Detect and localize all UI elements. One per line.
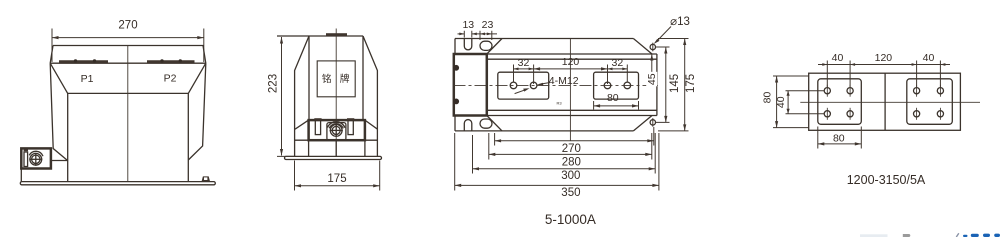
front view: cap bottom edge xyxy=(50,62,206,64)
busbar view: top dim extension lines xyxy=(827,61,940,88)
busbar view: right pad plate xyxy=(907,79,953,125)
svg-text:175: 175 xyxy=(685,74,697,93)
front view: outer right slant side xyxy=(188,63,206,160)
busbar view: dim line 40 vertical xyxy=(787,91,790,114)
front view: top cap outline xyxy=(50,46,206,64)
side view: 175 extension lines xyxy=(295,161,380,191)
svg-text:铭牌: 铭牌 xyxy=(322,72,358,85)
top view: dim line 280 xyxy=(489,153,652,156)
side view: left stud cap xyxy=(314,118,321,120)
side view: nameplate rectangle xyxy=(317,61,355,97)
svg-text:40: 40 xyxy=(923,52,935,64)
side view: dimension line 223 xyxy=(280,37,283,156)
top view: bottom U-slot xyxy=(464,120,472,131)
top view: dim line 300 xyxy=(473,167,656,170)
side view: terminal box outer (thick) xyxy=(309,120,365,140)
top view: band outer top line xyxy=(487,53,657,55)
front view: base plate xyxy=(20,182,215,185)
busbar view: 40 vertical ext lines xyxy=(786,91,825,114)
front view: terminal box bolt circles xyxy=(29,151,43,165)
front view: terminal box inner bar xyxy=(24,152,28,167)
top view: 175 ext lines xyxy=(658,39,689,131)
top view: outer bottom edge xyxy=(455,130,633,132)
side view: lower verticals xyxy=(309,140,365,156)
top view: dim 80 ext lines xyxy=(594,101,639,110)
svg-text:P1: P1 xyxy=(81,73,94,85)
top view: slash arrow near hole 2 xyxy=(515,88,530,93)
svg-text:120: 120 xyxy=(562,56,580,68)
top view: left edge below cap xyxy=(454,116,456,131)
top view: outer top edge xyxy=(455,38,633,40)
svg-text:32: 32 xyxy=(612,57,624,69)
busbar view: bar outline xyxy=(809,73,961,130)
top view: BL outer chamfer xyxy=(487,116,502,131)
front view: strip rivet ticks right xyxy=(160,59,182,62)
top view: M12 hole 4 xyxy=(624,82,631,89)
svg-text:300: 300 xyxy=(561,170,580,182)
front view: box left edge down to base xyxy=(20,169,22,182)
svg-text:5-1000A: 5-1000A xyxy=(545,212,596,227)
side view: left terminal stud xyxy=(315,120,320,135)
top view: band inner top line xyxy=(487,58,657,60)
top view: dim line 175 xyxy=(683,39,686,131)
top view: bottom dims extension lines xyxy=(455,127,659,191)
top view: label dia 13 with leader xyxy=(654,16,690,44)
front view: dimension 270 extension line right xyxy=(203,29,205,63)
top view: dim 13 extension lines xyxy=(464,31,472,38)
side view: right outer slant xyxy=(363,36,377,156)
side view: right wing diagonal xyxy=(365,120,378,129)
side view: right stud cap xyxy=(347,118,354,120)
front view: left terminal strip (thick) xyxy=(59,60,108,63)
top view: dim line 145 xyxy=(664,47,667,122)
top view: top U-slot xyxy=(464,39,472,50)
svg-text:120: 120 xyxy=(875,52,893,64)
svg-text:80: 80 xyxy=(607,92,619,104)
svg-text:1200-3150/5A: 1200-3150/5A xyxy=(847,173,926,187)
top view: left hole plate xyxy=(498,72,549,99)
busbar view: bolt holes right plate xyxy=(914,85,944,120)
front view: grounding bolt on base xyxy=(202,176,210,181)
watermark: light panel fragment xyxy=(860,234,888,237)
top view: dim line 80 xyxy=(594,104,639,107)
top view: dim 23 extension lines xyxy=(480,31,492,40)
top view: corner hole bottom right xyxy=(650,118,655,127)
top view: right hole plate xyxy=(594,72,639,99)
svg-text:350: 350 xyxy=(561,187,580,199)
top view: dim line 350 xyxy=(455,184,659,187)
busbar view: 80 bottom ext lines xyxy=(818,127,862,149)
svg-text:270: 270 xyxy=(118,20,137,32)
front view: secondary terminal box outer xyxy=(21,148,51,168)
side view: top lifting tab (thick) xyxy=(326,33,347,36)
front view: top-right chamfer diagonal xyxy=(188,63,206,93)
front view: right terminal strip (thick) xyxy=(147,60,195,63)
busbar view: 80 vertical ext lines xyxy=(773,76,809,128)
top view: dim line 120 xyxy=(534,67,608,70)
side view: left wing diagonal xyxy=(295,120,309,129)
top view: dim line 270 xyxy=(495,139,654,142)
front view: center vertical line xyxy=(127,46,129,182)
svg-text:145: 145 xyxy=(669,74,681,93)
top view: dim line 32 right xyxy=(608,68,628,71)
front view: dimension 270 extension line left xyxy=(51,29,53,63)
top view: band inner bottom line xyxy=(487,109,657,111)
busbar view: horizontal centerline xyxy=(800,101,980,103)
side view: inner left vertical xyxy=(308,36,310,120)
top view: dim line 45 xyxy=(646,54,657,86)
busbar view: bolt holes left plate xyxy=(824,85,853,120)
watermark: slash fragment xyxy=(956,233,959,237)
front view: strip rivet ticks left xyxy=(74,59,96,62)
side view: center vertical line xyxy=(335,29,337,157)
svg-text:⌀13: ⌀13 xyxy=(670,16,690,28)
top view: TR outer chamfer xyxy=(633,39,652,55)
side view: dimension line 175 xyxy=(295,184,380,187)
top view: vertical centerline xyxy=(569,39,571,141)
busbar view: middle seam xyxy=(884,73,886,130)
svg-text:270: 270 xyxy=(562,143,581,155)
top view: M12 hole 3 xyxy=(604,82,611,89)
front view: dimension line 270 xyxy=(52,36,204,39)
top view: ext lines for 32/120/32 xyxy=(514,65,628,85)
front view: box to body connection line xyxy=(51,160,68,162)
top view: bottom obround slot xyxy=(480,119,492,128)
side view: center bolt circles xyxy=(327,122,345,137)
svg-text:280: 280 xyxy=(562,156,581,168)
side view: right terminal stud xyxy=(348,120,353,135)
side view: 223 extension stub bottom xyxy=(277,155,295,157)
svg-text:32: 32 xyxy=(518,57,530,69)
svg-text:80: 80 xyxy=(833,132,845,144)
side view: shell bottom line xyxy=(295,139,378,141)
svg-text:223: 223 xyxy=(268,74,280,93)
top view: band outer bottom line xyxy=(487,115,657,117)
top view: M12 hole 1 xyxy=(510,82,517,89)
side view: base plate xyxy=(285,156,382,159)
top view: cap contact dots xyxy=(453,65,459,104)
top view: BR outer chamfer xyxy=(633,116,652,131)
top view: dim line 32 left xyxy=(514,68,534,71)
front view: top-left chamfer diagonal xyxy=(50,63,67,93)
top view: dim line 23 xyxy=(472,33,497,36)
top view: M12 hole 2 xyxy=(530,82,537,89)
front view: outer left slant side xyxy=(50,63,67,160)
svg-text:175: 175 xyxy=(327,173,346,185)
watermark: gray glyph fragment xyxy=(903,234,911,237)
side view: bolt housing square xyxy=(327,123,346,141)
side view: inner right vertical xyxy=(362,36,364,120)
busbar view: left pad plate xyxy=(818,79,862,125)
front view: terminal box cap tick xyxy=(24,149,28,151)
svg-text:40: 40 xyxy=(832,52,844,64)
svg-text:4-M12: 4-M12 xyxy=(549,75,579,87)
top view: dim line 13 xyxy=(458,33,477,36)
top view: left edge above cap xyxy=(454,39,456,55)
busbar view: top dimension line 40/120/40 xyxy=(818,63,950,66)
svg-text:45: 45 xyxy=(646,73,658,85)
busbar view: dim line 80 vertical xyxy=(775,76,778,128)
top view: 145 ext lines xyxy=(656,47,670,122)
top view: corner hole top right xyxy=(650,43,655,52)
busbar view: dim line 80 bottom xyxy=(818,142,862,145)
svg-text:R3: R3 xyxy=(557,101,563,106)
svg-text:23: 23 xyxy=(482,19,494,31)
side view: left outer slant xyxy=(295,36,309,156)
top view: TL outer chamfer xyxy=(487,39,502,55)
svg-text:80: 80 xyxy=(761,92,773,104)
front view: inner body rectangle xyxy=(68,93,189,181)
top view: label 4-M12 with leader xyxy=(537,75,579,87)
top view: top obround slot xyxy=(480,41,492,50)
svg-text:P2: P2 xyxy=(164,73,177,85)
top view: right end edge xyxy=(656,54,658,116)
watermark: blue glyph fragments xyxy=(963,234,1000,237)
top view: primary terminal cap (thick) xyxy=(454,54,487,116)
side view: top edge with left extension xyxy=(277,35,363,37)
top view: horizontal centerline xyxy=(454,84,659,86)
svg-text:13: 13 xyxy=(462,19,474,31)
